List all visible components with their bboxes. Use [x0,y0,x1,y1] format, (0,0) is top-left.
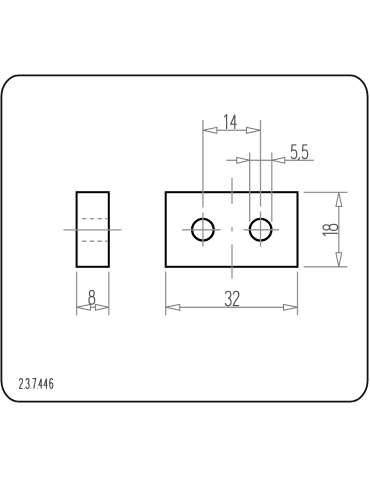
part vertical centerline lower segment [231,245,233,279]
hole left circle [192,219,214,241]
dim 8 extension line left [76,272,78,316]
dim 32 arrow left [166,304,180,310]
dim 18 dimension line [338,192,340,266]
dim 32 extension line left [165,272,167,316]
front view body outline [166,192,298,267]
dim 8 text [89,290,95,304]
part number text 2.3.7.446 [19,379,52,389]
dim 8 arrow left [77,304,91,310]
dim 5,5 arrow left [237,157,250,163]
dim 18 text rotated [323,224,338,236]
dim 5,5 extension line right [271,153,273,222]
dim 14 dimension line [203,129,261,131]
dim 5,5 extension line left [249,153,251,222]
dim 8 arrow right [95,304,108,310]
dim 8 dimension line [77,306,109,308]
dim 32 extension line right [297,272,299,316]
hole right vertical centerline lower segment [260,212,262,247]
dim 14 extension line left [202,120,204,208]
side view hidden hole line lower [82,240,107,242]
dim 14 arrow left [203,127,217,133]
dim 32 dimension line [166,306,298,308]
dim 18 extension line bottom [304,266,348,268]
dim 8 extension line right [108,272,110,316]
dim 32 text [225,291,239,305]
dim 14 text [224,115,236,129]
dim 32 arrow right [284,304,298,310]
dim 18 extension line top [304,191,348,193]
dim 5,5 text [291,145,307,160]
part vertical centerline middle dash [231,227,233,232]
dim 18 arrow bottom [336,253,342,267]
dim 5,5 dimension line with right leader [226,159,313,161]
dim 5,5 arrow right [272,157,285,163]
hole left horizontal centerline [182,229,221,231]
side view horizontal centerline [64,229,122,231]
side view body outline [77,192,109,267]
part vertical centerline upper segment [231,178,233,204]
hole right circle [250,219,272,241]
hole right horizontal centerline [244,229,280,231]
dim 14 extension line right [260,120,262,207]
dim 14 arrow right [247,127,261,133]
side view hidden hole line upper [82,218,107,220]
hole left vertical centerline lower segment [202,213,204,247]
dim 18 arrow top [336,192,342,206]
